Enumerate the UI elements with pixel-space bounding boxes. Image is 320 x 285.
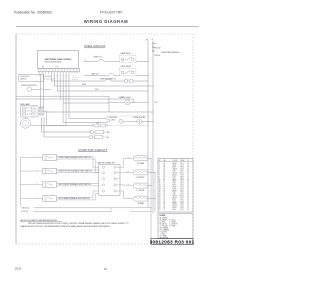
wire lock motor to switch: [32, 88, 41, 90]
svg-text:Y - YELLOW: Y - YELLOW: [160, 225, 169, 227]
svg-text:R-12: R-12: [127, 197, 130, 199]
svg-text:OR-18: OR-18: [173, 173, 177, 175]
wire drop left B: [43, 117, 45, 137]
svg-text:18: 18: [164, 196, 166, 198]
svg-text:P4-4: P4-4: [181, 169, 184, 171]
surface element E4 LT REAR: [133, 196, 148, 201]
svg-text:LEFT FRONT SURFACE UNIT SWITCH: LEFT FRONT SURFACE UNIT SWITCH: [58, 183, 91, 186]
svg-text:T6: T6: [187, 173, 189, 175]
latch row A out: [106, 125, 109, 127]
svg-text:18: 18: [164, 188, 166, 190]
svg-text:R-10: R-10: [173, 184, 176, 186]
svg-text:OVEN LIGHT: OVEN LIGHT: [121, 97, 131, 99]
svg-text:GR: GR: [48, 75, 50, 77]
latch switch S2: [100, 124, 106, 127]
svg-text:P1-10 V-18: P1-10 V-18: [72, 79, 78, 81]
cooktop connector block: [99, 165, 120, 196]
svg-text:T - TERM: T - TERM: [169, 221, 176, 223]
svg-text:BK-18: BK-18: [173, 163, 177, 165]
svg-text:12: 12: [164, 182, 166, 184]
svg-text:MDL: MDL: [107, 132, 110, 134]
svg-text:P7-1: P7-1: [181, 192, 184, 194]
svg-text:T1: T1: [187, 176, 189, 178]
svg-text:T2: T2: [187, 178, 189, 180]
svg-text:R - RED: R - RED: [160, 221, 165, 223]
svg-text:16: 16: [159, 192, 161, 194]
wire TCO to bake relay: [104, 61, 119, 63]
svg-text:W-18: W-18: [173, 165, 177, 167]
svg-text:15: 15: [159, 190, 161, 192]
lamp lead vertical: [65, 112, 67, 126]
svg-text:P3-1: P3-1: [181, 201, 184, 203]
wire drop to conv 2: [62, 103, 64, 123]
door lock switch box: [19, 74, 44, 81]
svg-text:OVEN CIRCUIT: OVEN CIRCUIT: [84, 44, 106, 48]
svg-text:12: 12: [164, 199, 166, 201]
svg-text:P5-4: P5-4: [181, 188, 184, 190]
element3 left stub: [127, 185, 134, 187]
wire switch2 out B: [57, 172, 99, 174]
latch switch S3: [95, 131, 104, 134]
bake relay contact: [121, 58, 123, 60]
svg-text:F - FUSE: F - FUSE: [169, 225, 175, 227]
svg-text:18: 18: [164, 201, 166, 203]
svg-text:DLB: DLB: [106, 137, 109, 139]
chassis ground arrow: [132, 99, 135, 102]
svg-text:LEGEND: LEGEND: [160, 215, 166, 217]
block wire to E4 b: [123, 191, 125, 199]
svg-text:BU - BLUE: BU - BLUE: [160, 223, 167, 225]
wire to broil TCO: [84, 75, 108, 77]
svg-text:P3-3: P3-3: [181, 167, 184, 169]
svg-text:P1-5: P1-5: [181, 180, 184, 182]
svg-text:18: 18: [164, 174, 166, 176]
svg-text:OR-18: OR-18: [173, 205, 177, 207]
latch motor B6: [89, 135, 93, 139]
block wire to E3 b: [124, 184, 126, 187]
svg-text:T3: T3: [187, 180, 189, 182]
wire switch to drop: [46, 88, 52, 90]
wire R-18 horizontal: [57, 90, 148, 92]
svg-text:T5: T5: [187, 197, 189, 199]
svg-text:18: 18: [164, 171, 166, 173]
svg-text:T3: T3: [187, 167, 189, 169]
svg-text:R-18: R-18: [173, 167, 176, 169]
convection fan dashed box: [107, 116, 148, 125]
latch motor B5: [90, 130, 94, 134]
wire to oven TCO: [84, 61, 98, 63]
surface element E3 LT FRONT: [133, 183, 148, 188]
svg-text:W-12: W-12: [173, 182, 177, 184]
wire BK-18 horizontal: [51, 80, 105, 82]
surface switch S3 box: [43, 182, 57, 188]
svg-text:P8-2: P8-2: [181, 194, 184, 196]
svg-text:13: 13: [159, 186, 161, 188]
svg-text:P1-4: P1-4: [181, 197, 184, 199]
svg-text:22: 22: [159, 203, 161, 205]
svg-text:LT FRONT: LT FRONT: [137, 190, 145, 192]
switch feed vertical L1: [19, 158, 21, 207]
svg-text:P1-1: P1-1: [181, 163, 184, 165]
svg-text:DOOR LOCK: DOOR LOCK: [20, 76, 29, 78]
supply wire L1: [34, 207, 152, 209]
wire pin drop to W-18: [53, 74, 55, 86]
wire pin drop left 2: [42, 74, 44, 109]
svg-text:COOKTOP CIRCUIT: COOKTOP CIRCUIT: [78, 148, 107, 152]
svg-text:18: 18: [164, 190, 166, 192]
svg-text:T4: T4: [187, 209, 189, 211]
svg-text:10/12: 10/12: [15, 267, 22, 271]
wire lock box to pin drop B: [44, 78, 54, 80]
svg-text:12: 12: [164, 180, 166, 182]
lamp lead right: [31, 125, 67, 127]
svg-text:25: 25: [159, 209, 161, 211]
svg-text:R-12: R-12: [127, 170, 130, 172]
wire switch4 out B: [57, 199, 96, 201]
svg-text:CHANGE WITHOUT NOTICE. USE REP: CHANGE WITHOUT NOTICE. USE REPLACEMENT W…: [20, 225, 111, 228]
table header rule: [158, 161, 193, 163]
wire switch2 out A: [57, 169, 99, 171]
svg-text:P4-2: P4-2: [181, 203, 184, 205]
svg-text:P9-3: P9-3: [181, 196, 184, 198]
svg-text:P2: P2: [42, 67, 44, 69]
svg-text:P4-3: P4-3: [181, 186, 184, 188]
svg-text:T2: T2: [187, 165, 189, 167]
svg-text:12: 12: [159, 184, 161, 186]
svg-text:18: 18: [164, 207, 166, 209]
wire to part number box run: [130, 211, 151, 213]
wire W-18 horizontal: [54, 85, 153, 87]
vent fan motor B2: [129, 79, 133, 83]
svg-text:TO: TO: [187, 160, 189, 162]
lamp terminal housing: [21, 106, 39, 117]
cooktop bus L2: [154, 172, 156, 211]
svg-text:30812083 R03 001: 30812083 R03 001: [150, 240, 195, 246]
svg-text:P8-3: P8-3: [181, 176, 184, 178]
element1 left stub: [127, 157, 134, 159]
svg-text:R-12: R-12: [127, 184, 130, 186]
svg-text:FPEH3077RF: FPEH3077RF: [100, 10, 123, 14]
svg-text:T6: T6: [187, 186, 189, 188]
wire to oven light: [109, 101, 125, 103]
block wire to E4 c: [124, 198, 127, 200]
svg-text:W - WHITE: W - WHITE: [160, 219, 167, 221]
wire to oven light branch: [63, 102, 109, 104]
svg-text:21: 21: [159, 201, 161, 203]
wire vent fan to bus: [133, 80, 148, 82]
oven TCO symbol: [98, 60, 104, 62]
svg-text:19: 19: [159, 197, 161, 199]
block wire to E1 b: [123, 158, 125, 167]
wire bake relay to bus: [136, 61, 148, 63]
svg-text:P2-1: P2-1: [181, 182, 184, 184]
svg-text:T4: T4: [187, 169, 189, 171]
wire to part number box: [150, 208, 152, 239]
svg-text:T1: T1: [187, 190, 189, 192]
svg-text:P2-1 OR-18: P2-1 OR-18: [108, 119, 115, 121]
svg-text:Publication No. 09069393: Publication No. 09069393: [14, 10, 52, 14]
svg-text:T6: T6: [187, 199, 189, 201]
svg-text:T7: T7: [187, 201, 189, 203]
svg-text:T4: T4: [187, 182, 189, 184]
block wire to E3 c: [125, 185, 127, 187]
svg-text:BK-12: BK-12: [173, 197, 177, 199]
svg-text:SWITCH: SWITCH: [20, 79, 26, 81]
svg-text:18: 18: [164, 173, 166, 175]
wire into convection box 2: [63, 122, 107, 124]
svg-text:DOOR LOCK MOTOR: DOOR LOCK MOTOR: [21, 85, 37, 87]
svg-text:BU-18: BU-18: [108, 121, 112, 123]
svg-text:R-18: R-18: [173, 209, 176, 211]
svg-text:R-12: R-12: [173, 199, 176, 201]
wire lock box to pin drop A: [44, 76, 52, 78]
door lock cam switch: [40, 88, 45, 90]
svg-text:18: 18: [164, 176, 166, 178]
svg-text:Y-18: Y-18: [173, 194, 176, 196]
svg-text:P3-2: P3-2: [181, 184, 184, 186]
svg-text:20: 20: [159, 199, 161, 201]
svg-text:RIGHT REAR SURFACE UNIT SWITCH: RIGHT REAR SURFACE UNIT SWITCH: [58, 156, 91, 159]
svg-text:P1-9 T-18: P1-9 T-18: [72, 76, 78, 78]
svg-text:18: 18: [164, 192, 166, 194]
surface switch S4 box: [43, 196, 57, 202]
stub wire row2: [20, 170, 43, 172]
svg-text:NO: NO: [159, 160, 161, 162]
diagram part number box: [151, 239, 193, 245]
svg-text:24: 24: [159, 207, 161, 209]
block wire to E1 a: [120, 166, 124, 168]
svg-text:T5: T5: [187, 171, 189, 173]
vent TCO symbol: [106, 79, 111, 81]
svg-text:P2-5: P2-5: [181, 199, 184, 201]
svg-text:BK-10: BK-10: [173, 186, 177, 188]
svg-text:P7-5: P7-5: [181, 209, 184, 211]
element2 right stub: [148, 171, 155, 173]
lamp lead up: [25, 117, 27, 118]
svg-text:W-18: W-18: [173, 201, 177, 203]
svg-text:17: 17: [159, 194, 161, 196]
svg-text:RIGHT FRONT SURFACE UNIT SWITC: RIGHT FRONT SURFACE UNIT SWITCH: [58, 170, 92, 173]
block wire to E2 a: [120, 172, 127, 174]
svg-text:Y-18: Y-18: [173, 171, 176, 173]
svg-text:P1-5 W-18: P1-5 W-18: [154, 47, 160, 49]
svg-text:4. R-8 (L2): 4. R-8 (L2): [21, 211, 29, 213]
wire GR-18 horizontal: [16, 98, 134, 100]
svg-text:S - SWITCH: S - SWITCH: [169, 223, 177, 225]
wire chart table box: [158, 159, 193, 213]
svg-text:GR-18: GR-18: [173, 169, 177, 171]
svg-text:T1: T1: [187, 163, 189, 165]
wire neutral run: [16, 95, 109, 97]
electronic oven control EOC box: [38, 50, 79, 68]
block wire to E2 b: [126, 171, 128, 173]
svg-text:LEFT REAR SURFACE UNIT SWITCH: LEFT REAR SURFACE UNIT SWITCH: [58, 197, 90, 200]
svg-text:P5-3: P5-3: [181, 205, 184, 207]
svg-text:P5-5: P5-5: [181, 171, 184, 173]
wire pin drop to BK-18: [50, 74, 52, 81]
svg-text:OVEN TEMP SENSOR: OVEN TEMP SENSOR: [161, 52, 180, 54]
element2 left stub: [127, 171, 134, 173]
convection relay contact: [119, 119, 123, 123]
svg-text:W-18: W-18: [173, 188, 177, 190]
svg-text:COLOR: COLOR: [173, 160, 178, 162]
svg-text:P6-4: P6-4: [181, 207, 184, 209]
svg-text:T1: T1: [187, 203, 189, 205]
wire between motors: [128, 80, 129, 82]
svg-text:12: 12: [164, 197, 166, 199]
svg-text:T3: T3: [187, 194, 189, 196]
svg-text:T5: T5: [187, 184, 189, 186]
stub wire row1: [20, 157, 43, 159]
wire latch row A: [46, 125, 93, 127]
wire pin drop: [62, 74, 64, 103]
svg-text:10: 10: [164, 184, 166, 186]
oven light DS2: [125, 100, 130, 105]
svg-text:18: 18: [164, 165, 166, 167]
lamp terminal rows: [22, 107, 26, 109]
svg-text:P1-6 R-18: P1-6 R-18: [154, 55, 160, 57]
svg-text:T2: T2: [187, 192, 189, 194]
wire pin drop to convection box: [68, 74, 70, 119]
svg-text:14: 14: [159, 188, 161, 190]
supply tie vertical: [110, 208, 112, 212]
svg-text:BU-18: BU-18: [173, 203, 177, 205]
svg-text:T2: T2: [187, 205, 189, 207]
wire switch4 out A: [57, 196, 93, 198]
lamp connector column: [40, 107, 44, 109]
svg-text:ELECTRONIC OVEN CONTROL: ELECTRONIC OVEN CONTROL: [45, 59, 73, 61]
svg-text:Y-18: Y-18: [154, 102, 157, 104]
svg-text:P - PLUG: P - PLUG: [169, 219, 175, 221]
cabinet boundary left edge: [15, 34, 17, 244]
cooktop bus L1: [150, 158, 152, 208]
svg-text:10: 10: [159, 180, 161, 182]
wire relay to fan motor: [123, 120, 137, 122]
element3 right stub: [148, 185, 151, 187]
svg-text:P6-5: P6-5: [181, 190, 184, 192]
latch switch S4: [94, 135, 102, 138]
svg-text:12: 12: [104, 267, 107, 271]
svg-text:V - VIOLET: V - VIOLET: [160, 231, 167, 233]
block wire to E3 a: [120, 184, 125, 186]
wire pin drop to lamp neutral: [65, 74, 67, 112]
wire switch3 out B: [57, 185, 99, 187]
latch switch S1: [93, 124, 99, 127]
surface switch S2 box: [43, 168, 57, 174]
terminal out wire: [45, 110, 47, 112]
wire pin drop to GR-18: [59, 74, 61, 99]
svg-text:(EOC) P/N 316576600: (EOC) P/N 316576600: [45, 62, 62, 64]
svg-text:BK: BK: [146, 40, 148, 42]
svg-text:RT FRONT: RT FRONT: [137, 177, 145, 179]
wire switch3 out A: [57, 182, 99, 184]
block wire to E1 c: [124, 157, 127, 159]
svg-text:18: 18: [164, 194, 166, 196]
svg-text:W-18: W-18: [95, 89, 99, 91]
svg-text:R-18: R-18: [173, 192, 176, 194]
convection fan motor B3: [137, 119, 142, 124]
svg-text:V-18: V-18: [173, 176, 176, 178]
bus wire N vertical: [152, 41, 154, 214]
svg-text:W: W: [42, 75, 43, 77]
svg-text:BK-18: BK-18: [82, 84, 86, 86]
svg-text:WIRING DIAGRAM: WIRING DIAGRAM: [84, 19, 128, 24]
element4 left stub: [127, 198, 134, 200]
wire latch row C: [44, 136, 89, 138]
svg-text:P9-4: P9-4: [181, 178, 184, 180]
connector block pins: [102, 166, 104, 168]
oven lamp DS1: [21, 118, 31, 128]
svg-text:18: 18: [164, 167, 166, 169]
wire pin drop to R-18: [56, 74, 58, 91]
element4 right stub: [148, 198, 155, 200]
svg-text:GR: GR: [74, 75, 76, 77]
oven temp sensor connector pins: [152, 43, 154, 45]
header rule: [16, 26, 199, 28]
element1 right stub: [148, 157, 151, 159]
svg-text:GR - GREEN: GR - GREEN: [160, 227, 168, 229]
wire TCO to broil relay: [114, 75, 119, 77]
svg-text:23: 23: [159, 205, 161, 207]
svg-text:OVEN LAMP: OVEN LAMP: [20, 103, 31, 106]
wire into convection box: [69, 118, 107, 120]
svg-text:18: 18: [164, 203, 166, 205]
svg-text:18: 18: [164, 205, 166, 207]
svg-text:GR-18: GR-18: [173, 196, 177, 198]
svg-text:BU-18: BU-18: [173, 174, 177, 176]
wire vertical oven light branch: [108, 96, 110, 112]
cabinet boundary dashed border: [16, 34, 193, 244]
stub wire row4: [20, 197, 43, 199]
svg-text:11: 11: [159, 182, 161, 184]
svg-text:18: 18: [164, 163, 166, 165]
svg-text:BK-18: BK-18: [173, 190, 177, 192]
surface element E1 RT REAR: [133, 156, 148, 161]
wire switch1 out B: [57, 158, 96, 160]
svg-text:T3: T3: [187, 207, 189, 209]
supply wire L2: [34, 211, 112, 213]
svg-text:R-12: R-12: [173, 178, 176, 180]
svg-text:10: 10: [164, 186, 166, 188]
svg-text:18: 18: [164, 169, 166, 171]
svg-text:UNIT. ALL WIRING SHOWN WITH DO: UNIT. ALL WIRING SHOWN WITH DOOR CLOSED,…: [28, 222, 129, 225]
broil relay contact: [121, 71, 123, 73]
wire drop left C: [45, 112, 47, 126]
svg-text:18: 18: [159, 196, 161, 198]
bus wire L1 vertical: [147, 41, 149, 208]
svg-text:T4: T4: [187, 196, 189, 198]
wire light to bus: [130, 101, 148, 103]
svg-text:BK-12: BK-12: [173, 180, 177, 182]
EOC connector pin row: [38, 69, 79, 72]
wire fan to bus: [142, 120, 153, 122]
svg-text:R-12: R-12: [127, 156, 130, 158]
svg-text:12: 12: [164, 178, 166, 180]
svg-text:P2-2: P2-2: [181, 165, 184, 167]
wire switch1 out A: [57, 155, 93, 157]
svg-text:T7: T7: [187, 188, 189, 190]
svg-text:T7: T7: [187, 174, 189, 176]
broil relay K2 dashed box: [119, 68, 135, 76]
wire lamp neutral: [44, 111, 153, 113]
svg-text:18: 18: [164, 209, 166, 211]
legend box: [158, 214, 193, 239]
svg-text:FROM: FROM: [181, 160, 185, 162]
svg-text:P6-1: P6-1: [181, 173, 184, 175]
svg-text:1. BK-8 (L1): 1. BK-8 (L1): [21, 207, 30, 209]
door lock motor B4: [27, 87, 32, 92]
surface element E2 RT FRONT: [133, 170, 148, 175]
